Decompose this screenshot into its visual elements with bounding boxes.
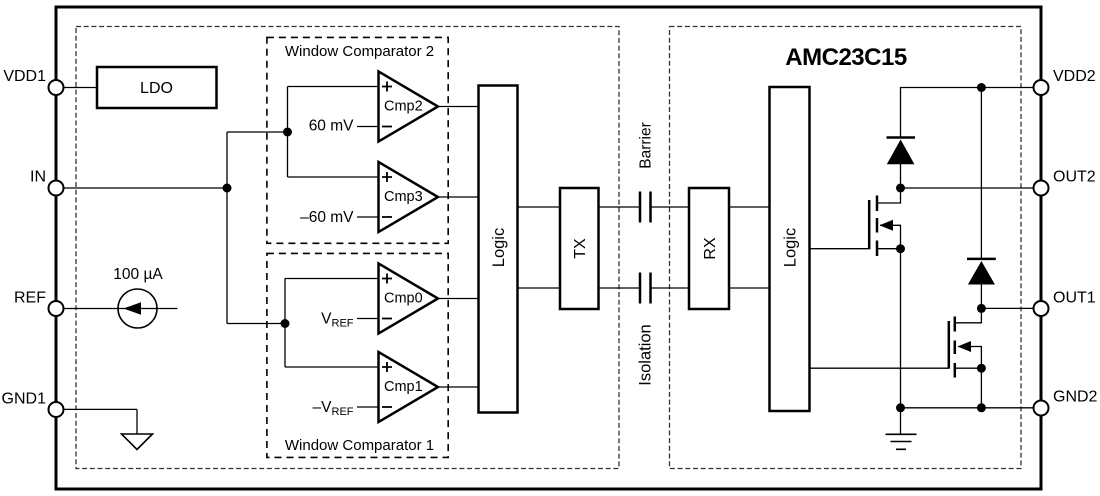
ground symbol GND1 bbox=[122, 434, 153, 450]
wire D1 anode to OUT2 node bbox=[900, 164, 902, 188]
wire IN to junction bbox=[64, 187, 227, 189]
wire WC2 input branch bbox=[288, 87, 380, 178]
svg-text:GND2: GND2 bbox=[1053, 389, 1098, 406]
wire Cmp3 output bbox=[438, 196, 479, 198]
op-amp Cmp0 bbox=[379, 264, 439, 334]
wire IN branch vertical bbox=[226, 132, 228, 324]
pin OUT1 bbox=[1034, 290, 1096, 317]
current source 100uA bbox=[113, 266, 163, 328]
pin GND2 bbox=[1034, 389, 1098, 416]
wire RX to logic bottom bbox=[730, 287, 770, 289]
svg-text:Logic: Logic bbox=[782, 228, 800, 267]
wire logic to TX bottom bbox=[518, 287, 560, 289]
pin REF bbox=[14, 290, 64, 317]
wire VDD1 to LDO bbox=[64, 87, 97, 89]
wire D2 anode to OUT1 node bbox=[980, 285, 982, 309]
svg-text:REF: REF bbox=[14, 290, 46, 307]
wire VDD2 rail bbox=[901, 88, 1034, 137]
current source arrow bbox=[124, 302, 142, 314]
wire to window comparator 1 bbox=[227, 323, 285, 325]
wire Q1 gate to logic bbox=[810, 248, 871, 250]
wire RX to logic top bbox=[730, 206, 770, 208]
svg-text:100 µA: 100 µA bbox=[113, 266, 163, 283]
wire Cmp0 inverting input stub bbox=[357, 318, 379, 320]
transistor Q2 low-side bbox=[949, 309, 982, 378]
svg-text:60 mV: 60 mV bbox=[309, 118, 354, 135]
logic block left bbox=[479, 86, 518, 413]
logic block right bbox=[770, 87, 810, 411]
wire Cmp3 inverting input stub bbox=[357, 216, 379, 218]
node OUT2 junction bbox=[896, 184, 905, 193]
junction dot Q2 source bbox=[977, 364, 986, 373]
wire Cmp0 output bbox=[438, 298, 479, 300]
svg-text:Cmp2: Cmp2 bbox=[384, 99, 423, 115]
wire REF through current source bbox=[64, 308, 178, 310]
junction dot VDD2 rail bbox=[977, 83, 986, 92]
svg-text:Cmp3: Cmp3 bbox=[384, 189, 423, 205]
ground symbol GND2 bbox=[886, 434, 917, 449]
node WC1 input junction bbox=[281, 319, 290, 328]
junction dot GND2 below Q2 bbox=[977, 403, 986, 412]
wire Cmp1 output bbox=[438, 386, 479, 388]
wire bottom capacitor to RX bbox=[652, 287, 690, 289]
wire Q2 gate to logic bbox=[810, 367, 950, 369]
svg-text:LDO: LDO bbox=[140, 80, 173, 97]
svg-text:–60 mV: –60 mV bbox=[300, 209, 354, 226]
svg-text:AMC23C15: AMC23C15 bbox=[785, 44, 907, 71]
svg-text:VDD1: VDD1 bbox=[3, 68, 46, 85]
right dashed isolation region bbox=[670, 27, 1022, 469]
pin IN bbox=[30, 169, 64, 196]
svg-text:Barrier: Barrier bbox=[638, 122, 655, 169]
TX block bbox=[560, 188, 599, 309]
wire OUT2 bbox=[901, 187, 1034, 189]
wire D2 cathode to VDD2 rail bbox=[980, 88, 982, 260]
svg-text:IN: IN bbox=[30, 169, 46, 186]
svg-text:GND1: GND1 bbox=[2, 391, 47, 408]
wire TX to bottom capacitor bbox=[599, 287, 640, 289]
svg-text:Cmp1: Cmp1 bbox=[384, 379, 423, 395]
junction dot Q1 source bbox=[896, 244, 905, 253]
wire TX to top capacitor bbox=[599, 206, 640, 208]
svg-text:Window Comparator 1: Window Comparator 1 bbox=[285, 437, 434, 454]
capacitor barrier top bbox=[640, 192, 651, 223]
svg-text:TX: TX bbox=[572, 238, 589, 259]
junction dot on IN wire bbox=[223, 184, 232, 193]
node WC2 input junction bbox=[283, 128, 292, 137]
svg-text:Window Comparator 2: Window Comparator 2 bbox=[285, 43, 434, 60]
wire top capacitor to RX bbox=[652, 206, 690, 208]
wire ground stem bbox=[900, 408, 902, 434]
svg-text:Isolation: Isolation bbox=[637, 324, 655, 385]
wire Q1 source to GND2 rail bbox=[900, 249, 902, 408]
RX block bbox=[689, 188, 729, 309]
pin VDD2 bbox=[1034, 68, 1096, 95]
svg-text:VDD2: VDD2 bbox=[1053, 68, 1096, 85]
wire GND2 rail bbox=[901, 407, 1034, 409]
capacitor barrier bottom bbox=[640, 273, 651, 304]
wire logic to TX top bbox=[518, 206, 560, 208]
svg-text:Logic: Logic bbox=[490, 228, 508, 267]
op-amp Cmp2 bbox=[379, 72, 439, 142]
op-amp Cmp1 bbox=[379, 352, 439, 422]
diode D2 bbox=[967, 259, 996, 285]
svg-text:RX: RX bbox=[702, 237, 719, 260]
wire to window comparator 2 bbox=[227, 131, 288, 133]
pin GND1 bbox=[2, 391, 64, 418]
window comparator 1 dashed box bbox=[267, 253, 448, 457]
left dashed isolation region bbox=[76, 27, 619, 469]
svg-text:Cmp0: Cmp0 bbox=[384, 291, 423, 307]
diode D1 bbox=[887, 138, 916, 165]
svg-text:OUT1: OUT1 bbox=[1053, 290, 1096, 307]
pin OUT2 bbox=[1034, 169, 1096, 196]
LDO box bbox=[97, 67, 217, 108]
window comparator 2 dashed box bbox=[267, 37, 448, 243]
wire WC1 input branch bbox=[285, 279, 379, 368]
junction dot GND2 at ground bbox=[896, 403, 905, 412]
node OUT1 junction bbox=[977, 304, 986, 313]
wire Cmp2 output bbox=[438, 106, 479, 108]
wire Q2 source to GND2 rail bbox=[980, 368, 982, 408]
wire Cmp2 inverting input stub bbox=[357, 126, 379, 128]
wire OUT1 bbox=[981, 307, 1033, 309]
op-amp Cmp3 bbox=[379, 162, 439, 232]
wire GND1 to ground bbox=[64, 409, 137, 434]
pin VDD1 bbox=[3, 68, 63, 95]
wire Cmp1 inverting input stub bbox=[357, 406, 379, 408]
transistor Q1 high-side bbox=[869, 189, 900, 256]
svg-text:OUT2: OUT2 bbox=[1053, 169, 1096, 186]
